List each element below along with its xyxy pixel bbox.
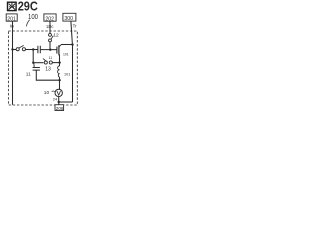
svg-text:208: 208: [56, 106, 64, 111]
svg-text:201: 201: [7, 16, 16, 22]
transistor Q1 channel bar: [58, 45, 60, 55]
svg-text:12: 12: [53, 32, 59, 38]
inductor L1 (coil on source line): [58, 66, 60, 77]
lower rail wire: [33, 62, 43, 64]
node on right bus: [71, 43, 73, 45]
capacitor C2 (horizontal plates): [33, 68, 40, 71]
wire switch 112 to node: [49, 42, 51, 50]
bottom rail wire to right bus: [58, 101, 73, 103]
svg-text:101: 101: [64, 73, 70, 77]
svg-text:In: In: [10, 24, 14, 30]
switch 113 (on lower rail): [43, 59, 47, 62]
svg-text:Tr: Tr: [73, 23, 78, 28]
meter V1 (circle with V): [55, 89, 62, 96]
node at gate wire: [49, 49, 51, 51]
figure title 図29C: [8, 2, 17, 10]
wire switch 113 to source line: [53, 62, 60, 64]
ground box 205: [55, 105, 64, 111]
switch 112 (vertical): [49, 33, 52, 36]
box 300 (top-right block): [63, 13, 76, 21]
transistor Q1 source wire: [58, 54, 61, 66]
svg-text:11: 11: [49, 56, 53, 60]
drain rail to right bus: [61, 44, 73, 46]
wire from box 300 down right: [71, 21, 73, 44]
capacitor C2 lower stub and return wire: [36, 70, 59, 80]
wire switch to capacitor: [26, 49, 38, 51]
stub to ground box: [58, 102, 60, 105]
svg-text:300: 300: [64, 16, 73, 22]
dashed enclosure 100: [8, 31, 77, 105]
box 202 (top-middle block): [44, 14, 56, 21]
right bus wire: [72, 45, 74, 102]
svg-text:10: 10: [44, 90, 50, 96]
transistor Q1 gate bar: [56, 47, 58, 54]
wire capacitor to node: [40, 49, 56, 51]
capacitor C1 (series, vertical plates): [38, 46, 40, 54]
node on lower rail: [32, 62, 34, 64]
node at source line: [58, 61, 60, 63]
node on left rail: [11, 48, 13, 50]
wire left rail to switch: [13, 49, 17, 51]
transistor Q1 drain: [59, 45, 61, 47]
svg-text:29C: 29C: [18, 0, 38, 14]
node return wire at source line: [58, 79, 60, 81]
svg-text:24: 24: [53, 97, 58, 102]
wire from box 201 down left side: [12, 21, 14, 105]
node bottom rail: [58, 101, 60, 103]
svg-text:13: 13: [45, 66, 51, 72]
svg-text:11: 11: [26, 71, 31, 77]
wire meter to bottom rail: [58, 97, 60, 102]
wire coil to meter: [59, 77, 61, 89]
node branch to lower rail: [32, 48, 34, 50]
wire from box 202 down: [49, 21, 51, 33]
switch SW1 (on horizontal rail): [16, 48, 19, 51]
svg-text:101: 101: [63, 53, 69, 57]
branch wire down from node to lower rail: [32, 50, 34, 63]
box 201 (top-left input block): [6, 14, 17, 21]
capacitor C2 stub from lower rail: [33, 63, 35, 67]
